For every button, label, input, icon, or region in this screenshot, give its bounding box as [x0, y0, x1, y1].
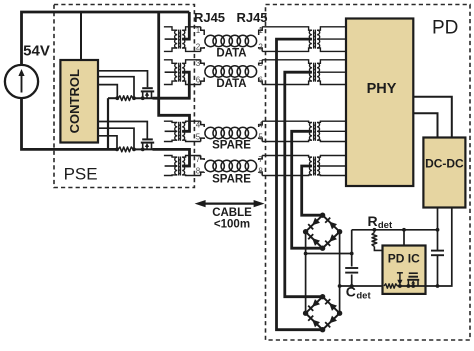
svg-text:DATA: DATA [216, 78, 246, 90]
svg-text:SPARE: SPARE [212, 140, 251, 152]
svg-text:DC-DC: DC-DC [425, 157, 464, 171]
transformer T5 (PD) [262, 27, 346, 52]
svg-text:1: 1 [196, 26, 201, 35]
svg-text:8: 8 [258, 167, 263, 176]
svg-text:1: 1 [258, 26, 263, 35]
wire bridge left bus [305, 232, 307, 314]
resistor R2 [118, 147, 133, 152]
svg-text:3: 3 [196, 59, 201, 68]
PHY block [346, 19, 413, 187]
diode bridge BR2 [303, 294, 342, 332]
svg-text:8: 8 [196, 167, 201, 176]
node Q1 source [141, 96, 145, 100]
wire sense rail 2 [117, 148, 118, 150]
wire Cdet bottom lead [351, 275, 353, 287]
svg-text:DATA: DATA [216, 48, 246, 60]
node Q3 source [407, 284, 411, 288]
PD IC block [383, 246, 426, 294]
svg-text:PD: PD [432, 18, 458, 39]
wire R3 to Q3 [398, 208, 452, 287]
RJ45 jack pins left pair 7/8 [196, 155, 204, 176]
svg-text:7: 7 [196, 155, 201, 164]
svg-text:det: det [356, 290, 371, 301]
svg-text:R: R [367, 213, 377, 229]
svg-text:5: 5 [258, 133, 263, 142]
wire feed T2 center tap from Q1 drain [153, 72, 190, 98]
transformer T1 (PSE) [164, 27, 201, 52]
twisted pair cable DATA [205, 35, 257, 46]
wire 54V negative rail (bottom) [22, 98, 118, 149]
wire feed T3 center tap from +rail [159, 12, 190, 131]
RJ45 jack pins left pair 1/2 [196, 26, 204, 51]
RJ45 jack pins right pair 3/6 [258, 59, 263, 85]
RJ45 jack pins right pair 1/2 [258, 26, 263, 51]
resistor Rdet [372, 230, 383, 251]
wire sense 1a [98, 77, 134, 97]
transistor Q1 [142, 87, 153, 89]
wire sense 2b [98, 136, 117, 148]
diode BR1 top-left [308, 218, 320, 230]
svg-text:3: 3 [258, 59, 263, 68]
transformer T2 (PSE) [164, 60, 201, 85]
node R1 left [115, 96, 119, 100]
svg-text:RJ45: RJ45 [194, 10, 225, 25]
transformer T7 (PD) [262, 121, 346, 141]
svg-text:RJ45: RJ45 [236, 10, 267, 25]
wire PHY to DC-DC left [413, 113, 437, 137]
DC-DC block [423, 138, 465, 208]
resistor R1 [118, 96, 133, 101]
wire bridge right bus [339, 232, 341, 314]
transistor Q3 (PD IC internal) [407, 273, 419, 286]
svg-text:2: 2 [196, 43, 201, 52]
node R2 right [132, 148, 136, 152]
wire CONTROL supply lead [80, 12, 82, 60]
wire sense rail 1 [108, 97, 118, 99]
transformer T4 (PSE) [164, 156, 201, 176]
svg-text:2: 2 [258, 43, 263, 52]
svg-text:6: 6 [196, 76, 201, 85]
svg-text:det: det [378, 220, 393, 231]
node R1 right [132, 96, 136, 100]
diode BR1 top-right [325, 218, 337, 230]
node R2 left [115, 148, 119, 152]
resistor R3 (PD IC internal) [384, 284, 398, 288]
wire rail 2 to drain [133, 148, 152, 150]
cable length arrow [195, 200, 265, 207]
node detect rail left [304, 252, 308, 256]
voltage source V1 54V [5, 65, 38, 98]
diode BR1 bottom-left [308, 234, 320, 246]
svg-text:5: 5 [196, 133, 201, 142]
node Q2 source [141, 148, 145, 152]
twisted pair cable SPARE [205, 160, 257, 171]
svg-text:4: 4 [258, 121, 263, 130]
wire detect rail [306, 253, 352, 255]
wire feed T7 tap to bridge B1 lower [292, 131, 323, 248]
PD enclosure (dashed) [266, 5, 471, 341]
wire feed T6 tap to bridge B2 upper [285, 72, 323, 297]
node C2 bottom [436, 284, 440, 288]
node Q3 body [411, 284, 415, 288]
wire top detect rail [352, 229, 438, 231]
transformer T8 (PD) [262, 156, 346, 176]
svg-text:54V: 54V [23, 43, 50, 60]
node Cdet bottom [350, 284, 354, 288]
twisted pair cable DATA [205, 66, 257, 77]
wire Cdet top lead [351, 230, 353, 267]
diode BR1 bottom-right [325, 234, 337, 246]
node I1 [398, 284, 402, 288]
wire sense 1b [98, 85, 117, 97]
wire feed T4 center tap from Q2 drain [153, 149, 190, 166]
wire rail link [107, 98, 109, 149]
PSE enclosure (dashed) [54, 5, 194, 188]
controller U1 CONTROL [60, 60, 98, 143]
svg-text:CABLE: CABLE [212, 207, 252, 219]
node detect rail right [350, 252, 354, 256]
transformer T6 (PD) [262, 60, 346, 85]
wire gate drive 2 [98, 122, 147, 139]
svg-text:CONTROL: CONTROL [67, 69, 82, 133]
node DCDC left lead [436, 228, 440, 232]
node return rail left [338, 284, 342, 288]
transistor Q2 [142, 138, 153, 140]
node Rdet top [373, 228, 377, 232]
wire PDIC top lead [403, 230, 405, 246]
current source arrow (PD IC internal) [397, 273, 403, 286]
wire DC-DC left lead down [437, 208, 439, 251]
capacitor Cdet [345, 268, 358, 273]
wire feed T5 tap to bridge B2 lower [277, 39, 323, 330]
svg-text:4: 4 [196, 121, 201, 130]
RJ45 jack pins left pair 4/5 [196, 121, 204, 142]
RJ45 jack pins right pair 7/8 [258, 155, 263, 176]
node PDIC top [402, 228, 406, 232]
wire feed T1 center tap from +rail [182, 12, 189, 39]
diode bridge BR1 [303, 213, 342, 251]
wire 54V positive rail (top) [22, 12, 190, 65]
transformer T3 (PSE) [164, 121, 201, 141]
capacitor C2 [431, 251, 444, 256]
twisted pair cable SPARE [205, 127, 257, 138]
diode BR2 bottom-left [308, 316, 320, 328]
wire bottom return rail [340, 285, 384, 287]
wire feed T8 tap to bridge B1 upper [302, 166, 323, 215]
diode BR2 top-left [308, 299, 320, 311]
wire PHY to DC-DC right [413, 97, 452, 138]
wire rail 1 to drain [133, 97, 152, 99]
svg-text:PD IC: PD IC [388, 251, 420, 265]
diode BR2 bottom-right [325, 316, 337, 328]
svg-text:SPARE: SPARE [212, 174, 251, 186]
svg-text:6: 6 [258, 76, 263, 85]
RJ45 jack pins right pair 4/5 [258, 121, 263, 142]
svg-text:7: 7 [258, 155, 263, 164]
wire sense 2a [98, 128, 134, 148]
svg-text:PSE: PSE [64, 164, 98, 183]
svg-text:<100m: <100m [214, 218, 250, 230]
diode BR2 top-right [325, 299, 337, 311]
wire gate drive 1 [98, 71, 148, 88]
RJ45 jack pins left pair 3/6 [196, 59, 204, 85]
svg-text:PHY: PHY [367, 81, 397, 97]
